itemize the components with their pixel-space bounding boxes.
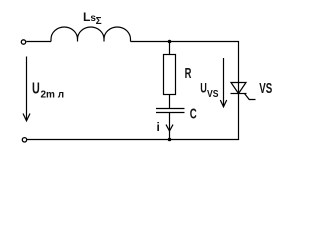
- svg-text:U: U: [32, 81, 40, 98]
- voltage arrow U2ml: [23, 57, 30, 121]
- label Uvs: [200, 79, 218, 99]
- current arrow i (arrowhead on wire): [166, 125, 173, 131]
- svg-text:VS: VS: [259, 80, 272, 97]
- terminal X2 (bottom left): [22, 138, 26, 142]
- svg-text:L: L: [83, 10, 90, 24]
- terminal X1 (top left): [21, 40, 25, 44]
- svg-text:U: U: [200, 79, 207, 95]
- wire terminal to inductor: [26, 41, 51, 43]
- svg-text:i: i: [157, 120, 160, 134]
- wire inductor to junction: [131, 41, 170, 43]
- wire resistor to capacitor: [169, 95, 171, 109]
- svg-text:C: C: [190, 105, 197, 122]
- svg-text:R: R: [185, 65, 192, 82]
- thyristor VS: [231, 83, 256, 100]
- wire capacitor to bottom junction: [169, 113, 171, 140]
- node junction bottom: [168, 138, 172, 142]
- inductor LsΣ: [51, 27, 131, 42]
- wire bottom segment: [27, 139, 239, 141]
- svg-text:2m л: 2m л: [41, 90, 65, 101]
- voltage arrow Uvs: [220, 58, 226, 107]
- svg-text:Σ: Σ: [96, 16, 102, 27]
- resistor R: [164, 55, 176, 95]
- wire right branch (anode to cathode): [238, 42, 240, 140]
- wire junction to resistor: [169, 42, 171, 55]
- capacitor C: [156, 109, 185, 113]
- label U2ml: [32, 81, 64, 101]
- label LsΣ: [83, 10, 102, 27]
- node junction top: [168, 40, 172, 44]
- wire junction to top-right corner: [170, 41, 240, 43]
- svg-text:VS: VS: [207, 88, 219, 100]
